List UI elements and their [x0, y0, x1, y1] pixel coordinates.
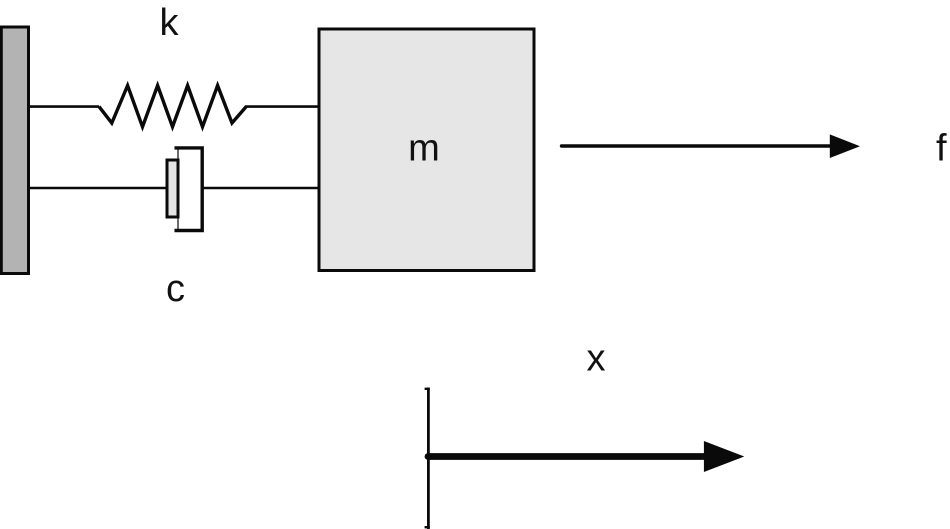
label c [166, 268, 185, 310]
label x [587, 338, 606, 380]
damper cylinder [175, 148, 203, 231]
displacement arrow x [428, 441, 744, 472]
label m [408, 128, 440, 170]
label f [936, 128, 947, 170]
mass m [319, 29, 534, 271]
wire damper-right [202, 187, 319, 190]
svg-text:k: k [160, 2, 180, 44]
svg-text:c: c [166, 268, 185, 310]
wall [1, 27, 28, 274]
force arrow f [562, 134, 861, 158]
wire spring-left [30, 105, 100, 108]
reference line [425, 388, 430, 529]
damper rod axis [177, 148, 179, 230]
wire damper-left [30, 187, 167, 190]
svg-text:x: x [587, 338, 606, 380]
spring k [99, 86, 246, 127]
svg-text:m: m [408, 128, 440, 170]
label k [160, 2, 180, 44]
damper piston [167, 160, 178, 217]
svg-text:f: f [936, 128, 947, 170]
wire spring-right [245, 105, 319, 108]
